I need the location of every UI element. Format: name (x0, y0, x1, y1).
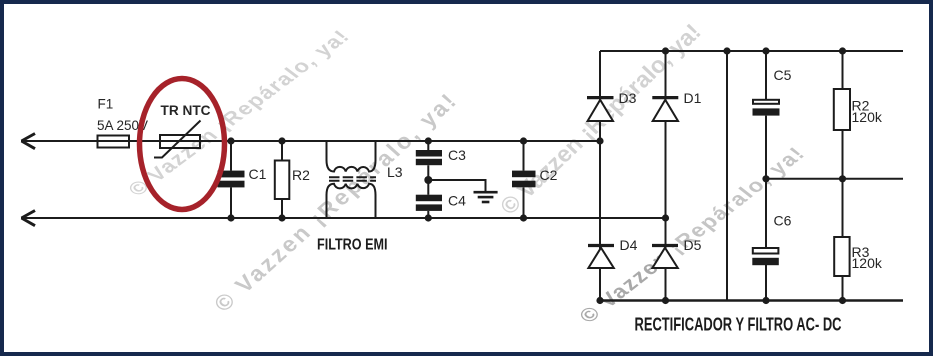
svg-text:C5: C5 (774, 67, 792, 83)
svg-text:C4: C4 (448, 193, 466, 209)
svg-text:FILTRO EMI: FILTRO EMI (317, 237, 388, 254)
svg-text:L3: L3 (387, 164, 403, 180)
svg-text:TR NTC: TR NTC (161, 103, 211, 118)
svg-text:C3: C3 (448, 147, 466, 163)
svg-text:120k: 120k (852, 255, 883, 271)
svg-text:C6: C6 (774, 213, 792, 229)
svg-text:RECTIFICADOR Y FILTRO AC- DC: RECTIFICADOR Y FILTRO AC- DC (635, 315, 842, 335)
svg-text:D5: D5 (684, 237, 702, 253)
svg-text:D1: D1 (684, 90, 702, 106)
svg-text:C1: C1 (249, 166, 267, 182)
svg-text:F1: F1 (98, 97, 114, 112)
svg-text:D4: D4 (620, 237, 638, 253)
svg-text:120k: 120k (852, 109, 883, 125)
svg-text:C2: C2 (540, 167, 558, 183)
svg-text:D3: D3 (619, 90, 637, 106)
svg-text:R2: R2 (292, 167, 310, 183)
